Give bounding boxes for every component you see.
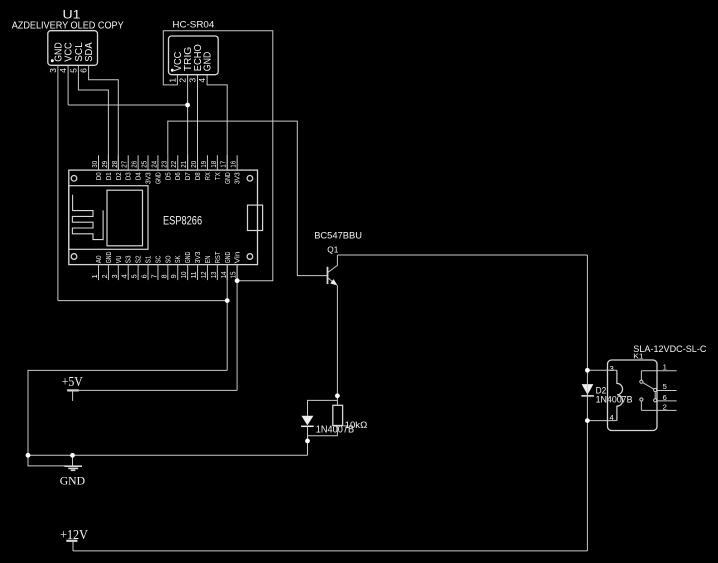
wire U1 pin5 SCL (78, 65, 108, 170)
svg-text:6: 6 (140, 274, 149, 278)
wire ESP D5 to Q1 base (168, 121, 328, 276)
U1 pin names GND VCC SCL SDA (54, 42, 96, 62)
svg-text:RX: RX (205, 172, 212, 180)
svg-text:6: 6 (663, 393, 667, 402)
svg-text:5: 5 (130, 274, 139, 278)
svg-text:SDA: SDA (84, 42, 95, 62)
svg-text:4: 4 (197, 78, 207, 83)
ESP8266 bottom pin stubs (99, 265, 238, 281)
svg-text:3: 3 (188, 78, 198, 83)
svg-text:4: 4 (58, 68, 68, 73)
svg-text:D3: D3 (126, 172, 133, 180)
svg-text:6: 6 (79, 68, 89, 73)
junction GND rail left (26, 453, 31, 458)
svg-text:8: 8 (159, 274, 168, 278)
svg-text:3: 3 (610, 364, 614, 373)
svg-text:TX: TX (215, 172, 222, 180)
svg-text:7: 7 (149, 274, 158, 278)
relay K1 pin 1 wire (641, 370, 676, 372)
svg-text:AZDELIVERY OLED COPY: AZDELIVERY OLED COPY (12, 21, 124, 32)
relay K1 pin 2 wire (641, 409, 676, 411)
ground symbol (64, 455, 82, 470)
ESP8266 bottom pin numbers 1-15 (90, 272, 238, 279)
wire Q1 emitter down (336, 285, 338, 405)
junction emitter node (335, 393, 340, 398)
svg-text:3V3: 3V3 (195, 251, 202, 263)
wire U1 pin3 GND down (57, 65, 59, 300)
svg-text:2: 2 (663, 403, 667, 412)
svg-text:D7: D7 (185, 172, 192, 180)
svg-text:EN: EN (205, 255, 212, 263)
wire relay branch vertical (586, 255, 588, 551)
resistor R1 10kOhm (333, 405, 343, 425)
+12V label (60, 527, 88, 542)
svg-text:ESP8266: ESP8266 (163, 214, 202, 228)
svg-text:GND: GND (106, 252, 113, 264)
wire GND rail (28, 454, 308, 456)
+5V label (62, 375, 83, 390)
svg-text:25: 25 (140, 161, 149, 168)
svg-text:D2: D2 (116, 172, 123, 180)
wire diode to GND rail (307, 426, 309, 455)
svg-text:5: 5 (663, 382, 667, 391)
U1 reference and value labels (12, 10, 124, 32)
diode D1 1N4007B symbol (301, 416, 314, 427)
+12V power symbol (66, 541, 77, 551)
svg-text:SO: SO (165, 255, 172, 263)
junction TRIG net (185, 103, 190, 108)
OLED display module U1 body (48, 31, 98, 66)
ESP8266 antenna (72, 195, 103, 240)
svg-text:12: 12 (199, 272, 208, 279)
junction diode-resistor node (305, 439, 310, 444)
junction relay pin3 node (585, 368, 590, 373)
svg-text:GND: GND (225, 252, 232, 264)
wire relay pin 3 (587, 369, 617, 371)
wire ESP pin14 GND down (226, 265, 228, 371)
wire ESP GND to left rail (28, 370, 227, 455)
wire +12V rail (73, 550, 587, 552)
svg-text:27: 27 (120, 161, 129, 168)
wire ESP pin15 Vin to +5V (236, 265, 238, 391)
svg-text:11: 11 (189, 272, 198, 279)
svg-text:2: 2 (178, 78, 188, 83)
svg-text:3V3: 3V3 (146, 172, 153, 184)
svg-text:SC: SC (155, 255, 162, 263)
svg-text:D5: D5 (165, 172, 172, 180)
svg-text:22: 22 (169, 161, 178, 168)
svg-text:RST: RST (215, 251, 222, 263)
ESP8266 shield can (69, 186, 148, 250)
wire relay pin 4 (587, 420, 617, 422)
svg-text:3: 3 (110, 274, 119, 278)
svg-text:HC-SR04: HC-SR04 (172, 19, 214, 30)
svg-text:5: 5 (68, 68, 78, 73)
ESP8266 bottom pin names (96, 251, 242, 263)
relay K1 labels (633, 344, 707, 361)
svg-text:1N4007B: 1N4007B (596, 395, 633, 405)
svg-text:24: 24 (149, 161, 158, 168)
svg-text:1: 1 (663, 362, 667, 371)
diode D2 labels (596, 385, 633, 404)
ESP8266 label (163, 214, 202, 228)
svg-text:18: 18 (209, 161, 218, 168)
svg-text:15: 15 (229, 272, 238, 279)
wire +5V rail (73, 389, 238, 391)
svg-text:17: 17 (219, 161, 228, 168)
svg-text:1N4007B: 1N4007B (316, 424, 354, 435)
relay K1 pin 5 wire (657, 390, 677, 392)
svg-text:SLA-12VDC-SL-C: SLA-12VDC-SL-C (633, 344, 707, 354)
svg-text:14: 14 (219, 272, 228, 279)
relay K1 pin numbers (610, 362, 667, 422)
svg-text:GND: GND (185, 252, 192, 264)
HC-SR04 pin names VCC TRIG ECHO GND (173, 44, 214, 71)
svg-text:+5V: +5V (62, 375, 83, 390)
wire HC-SR04 GND to ESP GND17 (207, 75, 227, 170)
svg-text:GND: GND (60, 475, 85, 487)
wire Q1 collector to relay (337, 254, 587, 256)
svg-text:D8: D8 (195, 172, 202, 180)
wire GND left hook (28, 455, 65, 466)
wire U1 pin4 VCC down (67, 65, 69, 105)
svg-text:4: 4 (120, 274, 129, 278)
ESP8266 usb connector (248, 205, 263, 230)
svg-text:21: 21 (179, 161, 188, 168)
svg-text:S1: S1 (146, 255, 153, 263)
svg-text:S2: S2 (136, 255, 143, 263)
wire HC-SR04 TRIG to ESP D7 (187, 75, 189, 170)
+5V power symbol (67, 390, 79, 401)
ESP8266 top pin stubs (99, 155, 238, 170)
HC-SR04 label (172, 19, 214, 30)
svg-text:S3: S3 (126, 255, 133, 263)
svg-text:D4: D4 (136, 172, 143, 180)
svg-text:29: 29 (100, 161, 109, 168)
svg-text:D1: D1 (106, 172, 113, 180)
diode D1 value label 1N4007B (316, 424, 354, 435)
svg-text:K1: K1 (633, 352, 643, 361)
svg-text:20: 20 (189, 161, 198, 168)
wire HC-SR04 VCC loop to ESP Vin (163, 31, 272, 281)
HC-SR04 pin numbers 1 2 3 4 (167, 78, 207, 83)
svg-text:1: 1 (167, 78, 177, 83)
svg-text:BC547BBU: BC547BBU (314, 231, 362, 242)
relay K1 contacts (640, 371, 657, 411)
svg-text:10: 10 (179, 272, 188, 279)
svg-text:2: 2 (100, 274, 109, 278)
svg-text:GND: GND (225, 172, 232, 184)
svg-text:3: 3 (48, 68, 58, 73)
svg-text:13: 13 (209, 272, 218, 279)
junction GND at ESP pin14 (225, 298, 230, 303)
resistor value label 10kOhm (345, 420, 368, 430)
svg-text:1: 1 (90, 274, 99, 278)
wire HC-SR04 ECHO to ESP D8 (197, 75, 199, 170)
svg-text:23: 23 (159, 161, 168, 168)
diode D2 1N4007B symbol (581, 384, 594, 396)
relay K1 coil (617, 370, 623, 420)
junction Vin net (235, 278, 240, 283)
svg-text:GND: GND (155, 172, 162, 184)
GND label (60, 475, 85, 487)
Q1 labels BC547BBU (314, 231, 362, 255)
ultrasonic sensor module HC-SR04 body (169, 36, 219, 75)
relay K1 body (608, 360, 658, 431)
svg-text:D0: D0 (96, 172, 103, 180)
wire U1 pin6 SDA (89, 65, 119, 170)
svg-text:28: 28 (110, 161, 119, 168)
svg-text:26: 26 (130, 161, 139, 168)
wire diode branch top (308, 400, 338, 415)
junction GND symbol (70, 453, 75, 458)
svg-text:3V3: 3V3 (235, 172, 242, 184)
ESP8266 top pin numbers 30-16 (90, 161, 238, 168)
ESP8266 mounting holes (71, 176, 253, 260)
svg-text:+12V: +12V (60, 527, 88, 542)
svg-text:A0: A0 (96, 255, 103, 263)
svg-text:VU: VU (116, 255, 123, 263)
svg-text:30: 30 (90, 161, 99, 168)
wire resistor bottom (308, 426, 338, 436)
ESP8266 module outline (69, 170, 258, 265)
svg-text:9: 9 (169, 274, 178, 278)
wire U1 VCC to TRIG net (68, 104, 188, 106)
svg-text:16: 16 (229, 161, 238, 168)
svg-text:Q1: Q1 (327, 244, 338, 254)
svg-text:Vin: Vin (235, 251, 242, 263)
svg-text:19: 19 (199, 161, 208, 168)
relay K1 pin 6 wire (657, 400, 677, 402)
U1 pin numbers 3 4 5 6 (48, 68, 89, 73)
wire U1 GND to ESP pin14 (58, 300, 227, 302)
svg-text:SK: SK (175, 255, 182, 263)
svg-text:GND: GND (203, 52, 214, 72)
svg-text:D6: D6 (175, 172, 182, 180)
transistor Q1 BC547BBU (328, 255, 338, 285)
junction relay pin4 node (585, 418, 590, 423)
ESP8266 top pin names (96, 172, 242, 184)
